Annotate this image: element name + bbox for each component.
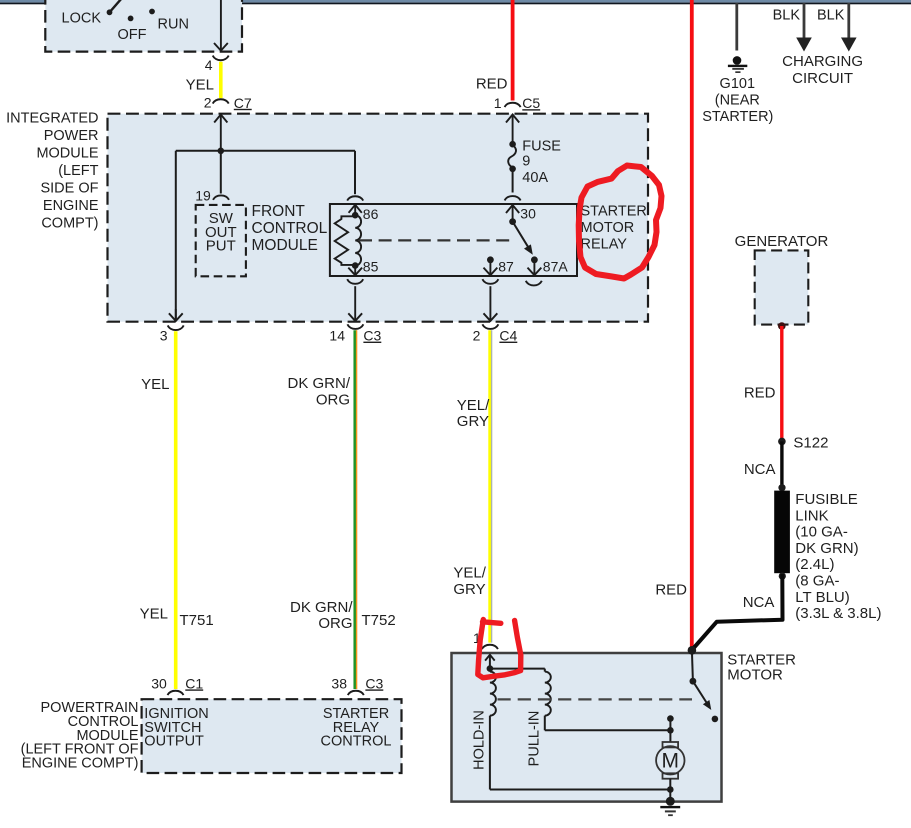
node rail junction [667,786,674,793]
svg-text:RED: RED [655,582,687,599]
connector C4 pin 2 [482,324,498,329]
wire motor to rail [669,779,671,790]
connector below pin 85 [347,279,363,284]
starter motor box [452,653,722,802]
svg-text:LT BLU): LT BLU) [795,589,849,606]
relay actuator dashed link [359,239,514,241]
wire IPM pin2 entry [214,115,227,123]
svg-text:YEL: YEL [141,376,169,393]
relay coil winding [355,215,361,265]
svg-text:CIRCUIT: CIRCUIT [792,70,853,87]
svg-text:HOLD-IN: HOLD-IN [472,710,488,770]
node S122 [778,438,786,446]
node motor top [667,727,674,734]
svg-text:ORG: ORG [318,615,352,632]
svg-text:STARTER: STARTER [581,204,647,220]
svg-text:C4: C4 [499,328,517,344]
svg-text:(LEFT: (LEFT [58,163,98,179]
wire to SW OUTPUT pin19 [220,151,222,194]
motor M1 [663,742,679,747]
node pin1 junction [487,665,494,672]
wire YEL pin3 to PCM C1 [174,331,178,689]
wire BLK charging 2 [847,3,850,39]
svg-text:YEL: YEL [140,606,168,623]
node junction A [218,148,225,155]
wire YEL/GRY C4 to starter pin1 [488,330,491,642]
svg-text:C3: C3 [363,328,381,344]
hold-in coil [489,669,491,672]
wire to pull-in coil [490,668,545,670]
wire top horizontal bus [0,0,911,3]
wire solenoid switch feed [692,650,693,681]
connector C1 pin 30 [168,691,184,695]
svg-text:DK GRN): DK GRN) [795,540,858,557]
node motor contact [667,715,674,722]
node switch contact [712,716,719,723]
svg-text:SIDE OF: SIDE OF [40,181,98,197]
ground G101 [733,56,742,65]
connector C3 pin 14 [347,324,363,329]
svg-text:85: 85 [363,258,379,274]
wire horizontal branch [176,150,355,152]
svg-text:MOTOR: MOTOR [581,220,635,236]
fuse F9 40A [509,141,516,148]
wire fusible link to starter junction [692,574,783,650]
svg-text:INTEGRATED: INTEGRATED [6,111,98,127]
front control module SW OUTPUT box [196,205,246,276]
svg-text:GRY: GRY [457,413,489,430]
wire DK GRN/ORG pin14 to PCM C3 [353,330,356,689]
svg-text:OUTPUT: OUTPUT [144,734,204,750]
node pin 86 [352,212,359,219]
powertrain control module box [142,699,402,773]
wire C5 to fuse [506,115,519,123]
wire fuse to relay 30 [512,170,514,193]
svg-text:(3.3L & 3.8L): (3.3L & 3.8L) [795,605,881,622]
svg-text:PULL-IN: PULL-IN [527,711,543,767]
svg-text:GENERATOR: GENERATOR [735,233,829,250]
wire pin1 entry [485,655,495,661]
wire hold-in to ground rail [489,716,491,790]
connector C7 pin 2 [213,99,229,103]
svg-text:CONTROL: CONTROL [321,734,392,750]
wire NCA S122 to fusible link [780,441,783,488]
svg-text:14: 14 [329,328,345,344]
svg-text:DK GRN/: DK GRN/ [290,599,353,616]
svg-text:C5: C5 [522,95,540,111]
relay switch blade 30 to 87A [513,222,528,247]
relay K1 box [330,204,577,276]
connector C3 pin 38 [348,691,364,695]
svg-text:NCA: NCA [744,461,776,478]
svg-text:RED: RED [744,385,776,402]
svg-text:40A: 40A [522,170,548,186]
svg-text:CHARGING: CHARGING [782,53,863,70]
solenoid switch blade [693,681,707,703]
svg-text:RUN: RUN [158,16,189,32]
svg-text:T752: T752 [362,612,396,629]
svg-text:(NEAR: (NEAR [715,92,760,108]
wire rail to case ground [669,790,671,802]
svg-text:(2.4L): (2.4L) [795,556,834,573]
svg-text:2: 2 [473,328,481,344]
svg-text:ENGINE: ENGINE [43,198,99,214]
wire to ground G101 [735,3,738,51]
ground starter case [666,797,675,806]
svg-text:CONTROL: CONTROL [252,220,328,237]
connector relay pin 30 [505,196,521,200]
wire BLK charging 1 [803,3,806,39]
svg-text:(8 GA-: (8 GA- [795,573,839,590]
node generator output [778,322,786,330]
svg-text:OFF: OFF [118,27,147,43]
node LOCK contact [107,9,113,15]
svg-text:LOCK: LOCK [62,11,102,27]
svg-text:S122: S122 [793,434,828,451]
svg-text:BLK: BLK [773,7,801,23]
wire pin 85 exit [348,268,362,276]
svg-text:1: 1 [494,95,502,111]
svg-text:FUSE: FUSE [522,138,561,154]
svg-text:POWER: POWER [44,128,99,144]
svg-text:DK GRN/: DK GRN/ [287,375,350,392]
svg-text:87A: 87A [543,258,569,274]
svg-text:38: 38 [331,675,347,691]
svg-text:NCA: NCA [743,594,775,611]
svg-text:C3: C3 [365,675,383,691]
wire pull-in to motor node [544,716,546,731]
ignition switch module box [45,0,242,52]
svg-text:(10 GA-: (10 GA- [795,524,848,541]
svg-text:30: 30 [520,205,536,221]
svg-text:9: 9 [522,153,530,169]
wire left branch to pin3 [175,151,177,321]
wire RED generator to S122 [780,326,783,441]
node pin 87A [531,256,538,263]
wire pin 87 exit [484,268,498,276]
svg-text:87: 87 [498,258,514,274]
svg-text:RELAY: RELAY [581,236,628,252]
svg-text:MODULE: MODULE [36,146,98,162]
wire contact stub [669,719,671,742]
annotation red mark at starter pin 1 [483,622,501,624]
node OFF contact [128,16,134,22]
connector below pin 87A [526,281,542,286]
svg-text:19: 19 [195,187,211,203]
ignition switch blade [110,0,123,12]
connector pin 19 [213,195,229,199]
connector C5 pin 1 [505,103,521,107]
svg-text:ENGINE COMPT): ENGINE COMPT) [22,755,139,771]
annotation red circle around STARTER MOTOR RELAY [579,166,662,279]
svg-text:YEL: YEL [186,77,214,94]
svg-text:C1: C1 [185,675,203,691]
svg-text:YEL/: YEL/ [453,565,486,582]
node pin 87 [487,256,494,263]
svg-text:30: 30 [151,675,167,691]
solenoid dashed link [498,698,693,700]
svg-text:RED: RED [476,75,508,92]
svg-text:COMPT): COMPT) [41,216,98,232]
svg-text:4: 4 [205,57,213,73]
connector pin 3 [168,325,184,330]
svg-text:FRONT: FRONT [252,203,306,220]
svg-text:86: 86 [363,206,379,222]
node pin 85 [352,262,359,269]
wire ignition output [214,43,228,51]
pull-in coil [544,669,546,672]
node switch pivot [690,678,697,685]
connector relay pin 86 [347,196,363,200]
svg-text:G101: G101 [720,76,755,92]
relay coil resistor [335,216,356,265]
svg-text:BLK: BLK [817,7,845,23]
node pin 30 [509,218,516,225]
svg-text:M: M [662,750,680,773]
svg-text:MODULE: MODULE [252,237,318,254]
svg-text:3: 3 [160,328,168,344]
fusible link [774,491,790,574]
wire pin 87A exit [528,268,542,276]
svg-text:STARTER): STARTER) [702,109,773,125]
wire YEL ignition to C7 [219,62,223,98]
svg-text:LINK: LINK [795,507,828,524]
svg-text:ORG: ORG [316,392,350,409]
connector starter pin 1 [482,645,498,649]
svg-text:MOTOR: MOTOR [727,666,783,683]
svg-text:T751: T751 [180,612,214,629]
node battery junction [688,646,697,655]
wire ground rail [490,789,670,791]
svg-text:YEL/: YEL/ [457,397,490,414]
connector below pin 87 [482,279,498,284]
wire branch to relay coil 86 [354,151,356,194]
wire RED battery to starter [690,0,694,650]
pin 4 connector [213,56,229,61]
svg-text:C7: C7 [234,95,252,111]
svg-text:GRY: GRY [453,581,485,598]
svg-text:PUT: PUT [206,237,236,254]
node RUN contact [149,9,155,15]
svg-text:2: 2 [204,95,212,111]
integrated power module box [108,114,649,322]
wire RED battery feed to C5 [511,0,515,101]
generator box [755,250,809,324]
svg-text:FUSIBLE: FUSIBLE [795,491,858,508]
